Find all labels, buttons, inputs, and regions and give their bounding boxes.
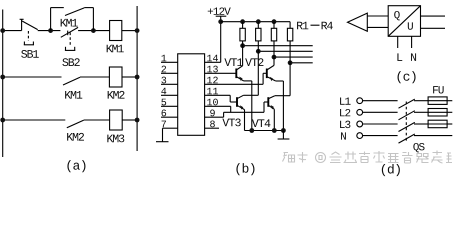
switch blade QS L2 — [399, 111, 415, 120]
label SB1 — [21, 50, 39, 58]
label U — [408, 22, 413, 29]
transistor VT4 — [268, 96, 275, 131]
node dot row1 left — [48, 28, 53, 33]
wire pin10 jog down — [230, 106, 232, 112]
wire left bus (a) — [2, 10, 4, 158]
wire row2 left segment — [3, 76, 62, 78]
pin 12 — [205, 77, 264, 85]
node dot rail R2 — [256, 19, 261, 24]
switch blade QS L3 — [399, 122, 415, 131]
label R1-R4 — [297, 22, 333, 30]
wire (c) right line 1 — [421, 15, 446, 17]
label (c) — [398, 71, 416, 83]
label KM1 branch — [61, 19, 78, 27]
switch linkage QS dashed — [405, 102, 407, 143]
terminal circle L2 — [357, 109, 363, 115]
wire +12V rail — [221, 21, 290, 23]
wire L1 to fuse — [414, 100, 428, 102]
terminal circle L3 — [357, 121, 363, 127]
wire L1 out — [447, 100, 452, 102]
wire output line 1 — [243, 45, 313, 47]
contact KM1 self-hold branch — [51, 8, 94, 31]
wire V1 R1 to VT1 collector — [242, 41, 244, 66]
wire V4 R4 to VT4 collector jog — [275, 41, 290, 96]
transistor VT2 — [267, 65, 284, 130]
label (d) — [382, 164, 400, 176]
label L3 (d) — [340, 121, 350, 128]
label VT2 — [245, 58, 263, 66]
label L — [397, 53, 402, 61]
wire L3 to fuse — [414, 123, 428, 125]
pin 11 — [205, 88, 231, 96]
label FU — [433, 86, 443, 93]
wire coil KM3 to bus — [122, 119, 137, 121]
label Q — [394, 11, 400, 20]
wire coil KM2 to bus — [122, 76, 137, 78]
node dot line1 — [240, 43, 245, 48]
wire row2 right segment — [80, 76, 109, 78]
wire L2 out — [447, 111, 452, 113]
wire pin9 net to VT4 base — [224, 102, 269, 117]
coil KM3 — [110, 110, 123, 130]
label KM2 row3 — [67, 133, 84, 141]
transistor VT1 — [236, 66, 252, 131]
label (a) — [67, 160, 85, 172]
node dot VT4 emitter — [272, 128, 277, 133]
wire +12V vertical to pin14 — [220, 16, 222, 62]
diagonal (c) — [388, 6, 420, 37]
switch blade QS N — [399, 134, 415, 143]
terminal circle N — [357, 133, 363, 139]
label QS — [413, 143, 424, 152]
wire pin12 jog to VT2 base — [263, 73, 267, 84]
wire emitter bus — [245, 130, 284, 132]
pin 8 — [205, 121, 219, 129]
pushbutton SB1 — [20, 19, 38, 45]
power rail tick — [216, 15, 227, 17]
node dot row3 left — [0, 118, 5, 123]
node dot rail R1 — [240, 19, 245, 24]
node dot line2 — [256, 49, 261, 54]
wire coil KM1 to bus — [122, 30, 137, 32]
resistor R2 — [256, 22, 261, 41]
node dot row2 bus — [135, 75, 140, 80]
label KM3 coil — [107, 135, 124, 143]
wire L3 in — [363, 123, 398, 125]
wire (c) right line 2 — [421, 27, 446, 29]
node dot ground tap — [281, 128, 286, 133]
pin 6 — [161, 110, 178, 118]
node dot VT1 emitter — [249, 128, 254, 133]
wire row1 right segment — [78, 30, 110, 32]
label SB2 — [62, 58, 79, 66]
IC U1 box — [178, 54, 205, 136]
label L1 (d) — [340, 97, 350, 104]
coil KM2 — [109, 67, 122, 87]
wire stub N — [411, 36, 413, 48]
wire stub L — [397, 36, 399, 48]
wire row1 mid segment — [38, 30, 61, 32]
pin 5 — [161, 99, 178, 107]
coil KM1 — [110, 21, 122, 41]
wire output line 3 — [274, 56, 313, 58]
node dot rail R3 — [272, 19, 277, 24]
fuse FU L1 — [428, 97, 447, 105]
fuse FU L2 — [428, 109, 447, 117]
wire pin11 jog to VT3 base — [230, 95, 237, 102]
transistor VT3 — [237, 95, 245, 130]
pin 3 — [161, 77, 178, 85]
watermark zhihu — [283, 151, 453, 164]
wire V2 R2 to VT3 collector node — [257, 41, 259, 95]
pin 1 — [161, 55, 178, 63]
contact KM1 row2 — [63, 77, 80, 85]
label (b) — [236, 163, 254, 175]
pin 13 — [205, 66, 236, 74]
wire N out — [414, 135, 452, 137]
switch blade QS L1 — [399, 99, 415, 108]
arrow double line — [367, 16, 388, 27]
fuse FU L3 — [428, 120, 447, 128]
node dot row1 right — [91, 28, 96, 33]
node dot line4 — [288, 60, 293, 65]
contact KM2 row3 — [67, 120, 84, 128]
label L2 (d) — [340, 109, 350, 116]
label N — [411, 53, 416, 61]
node dot line3 — [272, 55, 277, 60]
wire V3 R3 to VT2 collector — [273, 41, 275, 66]
pin 7 — [162, 121, 178, 129]
node dot +12V rail — [218, 19, 223, 24]
label KM2 coil — [108, 91, 125, 99]
node dot row3 bus — [135, 118, 140, 123]
wire L3 out — [447, 123, 452, 125]
wire L2 to fuse — [414, 111, 428, 113]
label VT1 — [224, 58, 243, 66]
wire right bus (a) — [136, 6, 138, 151]
label +12V — [208, 7, 231, 14]
wire row3 right segment — [84, 119, 110, 121]
pin 10 — [205, 99, 231, 107]
pin 4 — [161, 88, 178, 96]
converter box (c) — [388, 6, 420, 37]
arrow head hollow — [348, 13, 368, 31]
terminal circle L1 — [357, 98, 363, 104]
label KM1 row2 — [65, 91, 82, 99]
wire L2 in — [363, 111, 398, 113]
node dot row2 left — [0, 75, 5, 80]
wire output line 4 — [290, 62, 313, 64]
wire output line 2 — [258, 50, 312, 52]
pin 2 — [161, 66, 178, 74]
resistor R1 — [240, 22, 245, 41]
pushbutton SB2 — [61, 27, 78, 50]
node dot row1 left bus — [0, 28, 5, 33]
resistor R4 — [287, 22, 292, 41]
label VT4 — [252, 119, 271, 127]
pin 14 — [205, 55, 221, 63]
ground IC pin7 — [156, 128, 169, 142]
wire L1 in — [363, 100, 398, 102]
resistor R3 — [271, 22, 276, 41]
label N (d) — [341, 132, 346, 139]
wire row3 left segment — [3, 119, 66, 121]
label KM1 coil — [107, 45, 124, 53]
wire row1 left segment — [3, 30, 22, 32]
wire VT3 collector to V2 — [243, 94, 258, 96]
wire N in — [363, 135, 398, 137]
pin 9 — [205, 110, 224, 118]
node dot row1 bus — [135, 28, 140, 33]
label VT3 — [222, 119, 240, 127]
ground emitter bus — [278, 131, 290, 140]
